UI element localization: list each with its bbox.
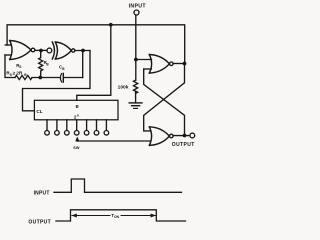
wire: G1 top input from rail bbox=[5, 44, 11, 46]
svg-text:ON: ON bbox=[114, 215, 120, 219]
node A junction bbox=[39, 49, 43, 53]
op gate: latch NOR U4 (lower) bbox=[149, 127, 169, 146]
terminal circle 2 bbox=[55, 131, 60, 136]
terminal: OUTPUT bbox=[190, 133, 195, 138]
wire: CB to node B riser bbox=[64, 77, 83, 79]
svg-text:B: B bbox=[76, 104, 79, 109]
op gate: latch NOR U3 (upper) bbox=[149, 55, 169, 74]
pin stub 7 bbox=[105, 120, 107, 131]
terminal circle 5 bbox=[84, 131, 89, 136]
svg-text:S: S bbox=[19, 65, 21, 69]
wire: U3 lower input stub bbox=[144, 68, 152, 70]
wire: node A (G1 out to G2 in) bbox=[35, 49, 47, 51]
pin stub 6 bbox=[96, 120, 98, 131]
pin stub 5 bbox=[86, 120, 88, 131]
wire: U3 output to node Q bbox=[173, 63, 184, 65]
wire: cross-coupling lower gate output to U3 input bbox=[144, 69, 185, 136]
wire: upper gate top input bbox=[136, 59, 152, 61]
wire: U4 output to OUTPUT terminal bbox=[173, 135, 190, 137]
svg-text:OUTPUT: OUTPUT bbox=[172, 142, 195, 148]
wire: SW to lower gate input bbox=[77, 140, 150, 142]
bubble: U4 output bbox=[170, 134, 174, 138]
resistor 100k bbox=[134, 80, 138, 93]
dimension arrow T_ON left bbox=[72, 215, 110, 217]
dimension arrow T_ON right bbox=[121, 215, 155, 217]
capacitor CB bbox=[60, 74, 61, 82]
terminal circle 6 bbox=[94, 131, 99, 136]
wire: RS left vertical to G1 lower input bbox=[5, 55, 15, 78]
node: rail tap junction to counter clock feed bbox=[109, 23, 113, 27]
node: junction INPUT / gate input / 100k bbox=[134, 58, 138, 62]
resistor RS horizontal bbox=[15, 75, 32, 79]
wire: node B feedback to counter CL (right, down, left, down, right) bbox=[23, 51, 91, 111]
pin stub 4 bbox=[76, 120, 78, 131]
terminal circle 1 bbox=[45, 131, 50, 136]
op gate: astable NOR G1 bbox=[10, 41, 31, 60]
svg-text:CL: CL bbox=[36, 109, 42, 114]
bubble: G2 output bbox=[72, 49, 75, 52]
pin stub 1 bbox=[46, 120, 48, 131]
wire: 100k to ground bbox=[135, 91, 137, 103]
op gate: astable NOR G2 with input bubble bbox=[47, 48, 52, 53]
ground bbox=[129, 102, 142, 104]
node X junction (RB bottom / RS / CB) bbox=[38, 76, 42, 80]
switch SW wiper arrow bbox=[76, 139, 78, 142]
wire: node B (G2 out) bbox=[75, 50, 90, 52]
svg-text:≥ 2R: ≥ 2R bbox=[13, 71, 23, 76]
wire: G1 bottom input from RS bbox=[5, 54, 11, 56]
waveform: OUTPUT pulse bbox=[56, 210, 186, 221]
resistor RB vertical (node A down) bbox=[39, 51, 43, 78]
pin stub 2 bbox=[56, 120, 58, 131]
wire: top feedback rail from latch output to astable enable bbox=[7, 25, 185, 64]
wire: node B down to CB right side bbox=[82, 51, 84, 78]
wire: cross-coupling Q to lower gate input bbox=[144, 64, 185, 131]
svg-text:INPUT: INPUT bbox=[129, 3, 147, 9]
box: binary counter 2^n bbox=[34, 100, 118, 120]
svg-text:100k: 100k bbox=[118, 84, 129, 90]
svg-text:n: n bbox=[77, 113, 79, 117]
terminal circle 4 bbox=[74, 131, 79, 136]
terminal circle 3 bbox=[65, 131, 70, 136]
svg-text:OUTPUT: OUTPUT bbox=[28, 220, 51, 226]
svg-text:INPUT: INPUT bbox=[34, 190, 50, 196]
svg-text:SW: SW bbox=[73, 146, 80, 150]
wire: INPUT line down to latch set input and pull-down bbox=[135, 15, 137, 80]
node: U4 output junction bbox=[183, 134, 187, 138]
bubble: G1 output bbox=[31, 48, 35, 52]
node B junction bbox=[81, 49, 85, 53]
terminal: INPUT bbox=[134, 10, 139, 15]
pin stub 3 bbox=[66, 120, 68, 131]
terminal circle 7 bbox=[104, 131, 109, 136]
wire: counter clock feed (rail down, left, into box top pin) bbox=[77, 25, 111, 101]
wire: RS to node X to CB bbox=[32, 77, 60, 79]
bubble: U3 output bbox=[170, 62, 174, 66]
waveform: INPUT pulse bbox=[54, 179, 182, 192]
node Q junction bbox=[183, 62, 187, 66]
